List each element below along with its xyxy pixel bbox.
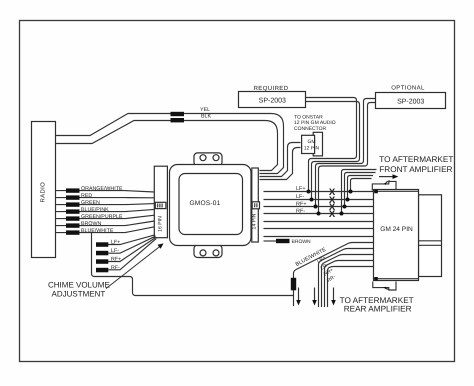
svg-text:12 PIN GM AUDIO: 12 PIN GM AUDIO [294,120,336,126]
svg-text:CHIME VOLUME: CHIME VOLUME [48,281,110,290]
svg-text:SP-2003: SP-2003 [397,97,424,105]
svg-text:TO ONSTAR: TO ONSTAR [294,114,323,120]
svg-text:ORANGE/WHITE: ORANGE/WHITE [81,186,123,192]
svg-text:TO AFTERMARKET: TO AFTERMARKET [340,296,414,305]
svg-text:GREEN: GREEN [81,200,100,206]
svg-text:REQUIRED: REQUIRED [254,85,289,92]
svg-text:12 PIN: 12 PIN [304,146,319,152]
svg-text:FRONT AMPLIFIER: FRONT AMPLIFIER [379,165,452,174]
svg-text:ADJUSTMENT: ADJUSTMENT [52,290,106,299]
svg-text:LF-: LF- [296,193,304,199]
svg-text:14 PIN: 14 PIN [251,214,256,230]
svg-text:SP-2003: SP-2003 [259,96,286,104]
svg-text:RADIO: RADIO [39,182,46,203]
svg-text:GMOS-01: GMOS-01 [189,199,220,207]
svg-text:BLUE/WHITE: BLUE/WHITE [81,228,113,234]
svg-text:X: X [329,209,336,220]
svg-text:BLK: BLK [201,113,211,119]
svg-text:GREEN/PURPLE: GREEN/PURPLE [81,214,123,220]
svg-text:CONNECTOR: CONNECTOR [294,126,326,132]
svg-text:RED: RED [81,193,92,199]
svg-text:RF-: RF- [296,208,305,214]
svg-text:16 PIN: 16 PIN [157,216,163,232]
svg-text:TO AFTERMARKET: TO AFTERMARKET [379,155,453,164]
svg-text:BROWN: BROWN [292,239,311,245]
svg-text:RF+: RF+ [296,201,307,207]
svg-text:REAR AMPLIFIER: REAR AMPLIFIER [344,304,412,313]
svg-text:BROWN: BROWN [81,221,101,227]
svg-text:LF+: LF+ [296,186,306,192]
svg-text:GM 24 PIN: GM 24 PIN [380,225,413,233]
svg-text:GM: GM [307,139,315,145]
svg-text:BLUE/PINK: BLUE/PINK [81,207,109,213]
svg-text:OPTIONAL: OPTIONAL [391,84,425,91]
svg-text:YEL: YEL [200,107,210,113]
